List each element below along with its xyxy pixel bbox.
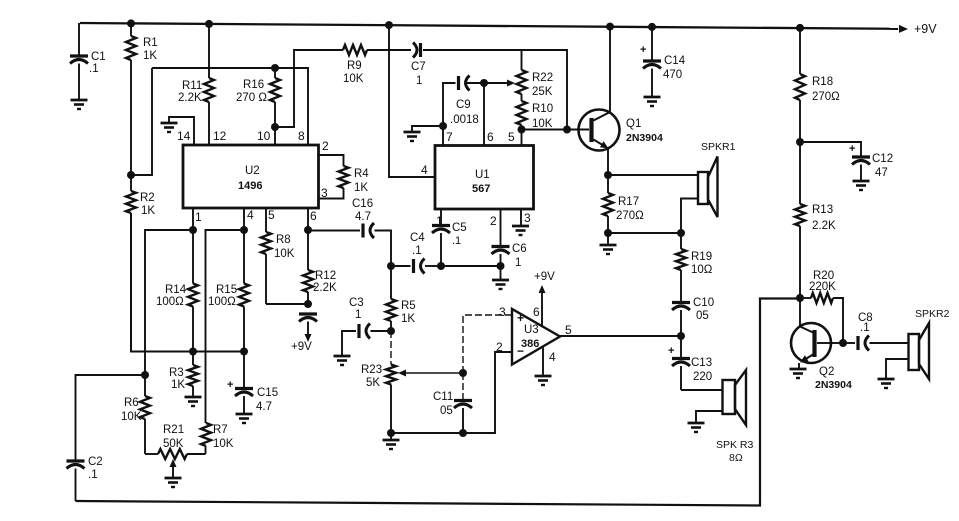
- capacitor C2: [67, 461, 85, 501]
- svg-text:Q2: Q2: [819, 366, 834, 378]
- svg-text:R19: R19: [691, 251, 712, 263]
- node rail-R1: [127, 19, 135, 27]
- capacitor C6: [492, 247, 510, 267]
- svg-text:10K: 10K: [343, 73, 364, 85]
- resistor R7: [201, 423, 211, 446]
- capacitor C14: [640, 27, 661, 97]
- svg-text:+: +: [849, 143, 855, 155]
- wire pin6 to C16: [308, 230, 360, 232]
- node C5 bottom: [437, 262, 445, 270]
- svg-text:C7: C7: [411, 61, 426, 73]
- label U2 top pins: [177, 129, 305, 143]
- wire pin4 to R7: [206, 230, 245, 423]
- wire U1 pin1 / C5: [440, 209, 442, 226]
- label R17 270: [616, 196, 644, 222]
- svg-text:SPKR2: SPKR2: [915, 308, 950, 320]
- svg-text:2: 2: [496, 340, 503, 354]
- wire C8 to SPKR2: [870, 342, 909, 344]
- svg-text:C14: C14: [664, 55, 686, 67]
- capacitor C11: [454, 373, 472, 433]
- wire C5node to C6 node: [441, 265, 501, 267]
- label C3 1: [349, 297, 364, 321]
- node row-R14: [189, 348, 197, 356]
- svg-text:R2: R2: [140, 192, 155, 204]
- svg-text:4: 4: [247, 208, 254, 222]
- label C8 .1: [858, 312, 873, 334]
- node pin5 junction: [518, 126, 526, 134]
- wire Q2 collector: [799, 298, 801, 327]
- svg-text:4.7: 4.7: [256, 401, 272, 413]
- ground (C3): [334, 356, 351, 365]
- ground (R23): [383, 433, 400, 449]
- wire R21 to R7: [205, 446, 207, 454]
- svg-text:.1: .1: [89, 63, 99, 75]
- node C9 right: [480, 79, 488, 87]
- label C2 .1: [88, 456, 103, 481]
- svg-text:R21: R21: [163, 424, 184, 436]
- wire C7 to Q1 base net: [423, 50, 567, 130]
- svg-text:10: 10: [257, 129, 271, 143]
- label SPKR2: [915, 308, 950, 320]
- resistor R9: [343, 45, 367, 55]
- label C1 .1: [89, 51, 106, 75]
- node R5 bottom: [387, 327, 395, 335]
- wire node to riser: [131, 68, 152, 175]
- svg-text:10K: 10K: [274, 248, 295, 260]
- wire C3 ground arm: [342, 331, 356, 356]
- wire R2 bottom row: [131, 213, 244, 352]
- wire SPKR1 bottom: [681, 199, 698, 234]
- wire U2 pin3 stub: [319, 188, 344, 199]
- wire node to C2: [76, 375, 146, 461]
- resistor R3: [188, 352, 198, 397]
- label U3 386: [521, 324, 539, 350]
- wire U3 pin6 +9V: [539, 285, 546, 326]
- label R11 2.2K: [178, 80, 202, 104]
- resistor R8: [261, 232, 271, 304]
- svg-text:.1: .1: [860, 322, 870, 334]
- svg-text:10Ω: 10Ω: [691, 264, 713, 276]
- wire U1 pin2 / C6: [500, 209, 502, 247]
- capacitor C5: [432, 226, 450, 267]
- wire C3 to R5 node: [371, 330, 392, 332]
- wire +9V top rail: [80, 23, 898, 29]
- label C9 .0018: [450, 99, 479, 126]
- svg-text:C16: C16: [352, 198, 373, 210]
- svg-text:.1: .1: [88, 469, 98, 481]
- ground (Q2): [790, 369, 807, 378]
- svg-text:C11: C11: [433, 391, 453, 403]
- resistor R1: [126, 23, 136, 175]
- svg-text:C3: C3: [349, 297, 364, 309]
- label C10 05: [693, 297, 714, 322]
- label R5 1K: [401, 300, 416, 325]
- svg-text:+9V: +9V: [291, 341, 312, 353]
- svg-text:C5: C5: [452, 222, 467, 234]
- wire R22 top tap: [521, 50, 523, 70]
- svg-text:567: 567: [472, 183, 490, 195]
- svg-text:C10: C10: [693, 297, 714, 309]
- svg-text:+9V: +9V: [534, 271, 555, 283]
- svg-text:R17: R17: [618, 196, 639, 208]
- label R14 100: [156, 284, 187, 308]
- wire R8 to R12 node: [266, 303, 308, 305]
- svg-text:100Ω: 100Ω: [208, 296, 236, 308]
- ground (C1): [71, 100, 88, 109]
- resistor R13: [795, 142, 805, 298]
- label C12 47: [872, 153, 893, 179]
- potentiometer R22: [517, 70, 527, 94]
- svg-text:R16: R16: [243, 79, 264, 91]
- label R13 2.2K: [812, 204, 836, 232]
- ground (U1 pin3): [512, 226, 529, 235]
- wire Q2 emitter: [798, 363, 800, 369]
- svg-text:+: +: [227, 379, 233, 391]
- wire pin7 ground arm: [412, 126, 443, 132]
- svg-text:1: 1: [416, 75, 422, 87]
- potentiometer R21: [145, 449, 206, 459]
- wire to SPKR1: [608, 174, 698, 176]
- svg-text:6: 6: [487, 130, 494, 144]
- wire Q1 collector: [609, 27, 611, 112]
- svg-text:+: +: [668, 345, 674, 357]
- svg-text:R15: R15: [216, 284, 237, 296]
- resistor R14: [188, 230, 198, 352]
- svg-text:1: 1: [515, 257, 521, 269]
- resistor R20: [800, 293, 843, 343]
- node wiper/C11: [459, 369, 467, 377]
- potentiometer R23: [386, 365, 396, 385]
- label R1 1K: [143, 37, 158, 62]
- resistor R5: [386, 266, 396, 331]
- wire C9 left to pin7: [443, 83, 456, 145]
- capacitor C8: [843, 336, 869, 351]
- label U1 bottom pins: [436, 211, 531, 228]
- svg-text:+: +: [640, 44, 646, 56]
- label R15 100: [208, 284, 237, 308]
- ground (C6): [492, 266, 509, 289]
- capacitor C16: [363, 223, 374, 238]
- node output/C13: [677, 332, 685, 340]
- resistor R11: [204, 24, 214, 145]
- label U1 567: [472, 169, 490, 195]
- wire U2 pin5 stub: [265, 208, 267, 232]
- svg-text:386: 386: [521, 338, 539, 350]
- svg-text:R5: R5: [401, 300, 416, 312]
- label C15 4.7: [256, 387, 278, 413]
- svg-text:C4: C4: [410, 232, 425, 244]
- label U1 pin4: [421, 163, 428, 177]
- svg-text:50K: 50K: [163, 438, 184, 450]
- ground (C12): [853, 181, 870, 190]
- label R8 10K: [274, 234, 295, 260]
- svg-text:C9: C9: [456, 99, 471, 111]
- svg-text:2.2K: 2.2K: [313, 282, 337, 294]
- label C4 .1: [410, 232, 425, 257]
- label R22 25K: [532, 72, 553, 98]
- op-amp U2 1496 box: [183, 145, 319, 208]
- resistor R2: [126, 175, 136, 352]
- svg-text:10K: 10K: [121, 411, 142, 423]
- label Q1 2N3904: [626, 118, 663, 144]
- label C11 05: [433, 391, 453, 417]
- resistor R17: [603, 175, 613, 233]
- wire C9 to pin6: [483, 83, 485, 145]
- node row-R15: [240, 348, 248, 356]
- svg-text:R1: R1: [143, 37, 158, 49]
- svg-text:5: 5: [268, 208, 275, 222]
- wire Q1 emitter: [607, 149, 609, 175]
- label Q2 2N3904: [815, 366, 852, 391]
- svg-text:.1: .1: [452, 235, 461, 247]
- svg-text:8: 8: [298, 129, 305, 143]
- svg-text:10K: 10K: [532, 118, 553, 130]
- svg-text:8Ω: 8Ω: [729, 452, 743, 464]
- svg-text:R13: R13: [812, 204, 833, 216]
- svg-text:C15: C15: [257, 387, 278, 399]
- label SPKR3 8ohm: [716, 439, 754, 464]
- svg-text:10K: 10K: [213, 438, 234, 450]
- svg-text:SPK R3: SPK R3: [716, 439, 754, 451]
- wire C16 to C4 node: [375, 231, 392, 267]
- svg-text:05: 05: [440, 405, 453, 417]
- op-amp U1 567 box: [435, 146, 534, 210]
- node R16 top: [271, 64, 279, 72]
- label R3 1K: [169, 367, 185, 391]
- svg-text:2N3904: 2N3904: [626, 132, 663, 144]
- svg-text:5: 5: [565, 323, 572, 337]
- node rail-pin4: [385, 21, 393, 29]
- wire rail to U1 pin4: [389, 25, 435, 177]
- svg-text:100Ω: 100Ω: [156, 296, 184, 308]
- resistor R18: [795, 28, 805, 142]
- label C6 1: [512, 243, 527, 269]
- wire Q2 base: [831, 342, 843, 344]
- label R10 10K: [532, 103, 553, 130]
- svg-text:1K: 1K: [141, 205, 155, 217]
- svg-text:R6: R6: [124, 397, 139, 409]
- ground (C14): [644, 97, 661, 106]
- node pin4 junction: [240, 226, 248, 234]
- op-amp U3 386: [512, 309, 560, 365]
- svg-text:5: 5: [508, 130, 515, 144]
- svg-text:3: 3: [499, 305, 506, 319]
- svg-text:R3: R3: [169, 367, 184, 379]
- transistor Q2 2N3904: [791, 323, 831, 363]
- svg-text:270 Ω: 270 Ω: [236, 92, 267, 104]
- capacitor C13: [668, 336, 690, 390]
- svg-text:R8: R8: [276, 234, 291, 246]
- svg-text:R9: R9: [347, 60, 362, 72]
- node pin1 junction: [189, 226, 197, 234]
- node R18/R13/C12: [796, 138, 804, 146]
- wire pin5 to Q1 base: [522, 129, 590, 131]
- svg-text:7: 7: [446, 130, 453, 144]
- label R6 10K: [121, 397, 142, 423]
- wire pin8 net: [152, 68, 308, 145]
- svg-text:R12: R12: [315, 270, 336, 282]
- node base net tee: [563, 126, 571, 134]
- svg-text:270Ω: 270Ω: [812, 91, 840, 103]
- capacitor C1: [70, 56, 88, 99]
- svg-text:2: 2: [322, 139, 329, 153]
- label C5: [452, 222, 467, 247]
- svg-text:270Ω: 270Ω: [616, 210, 644, 222]
- svg-text:C12: C12: [872, 153, 893, 165]
- svg-text:R14: R14: [165, 284, 187, 296]
- wire U2 pin1 stub: [192, 208, 194, 230]
- svg-text:220K: 220K: [809, 281, 836, 293]
- svg-text:12: 12: [213, 129, 227, 143]
- svg-text:6: 6: [533, 305, 540, 319]
- svg-text:SPKR1: SPKR1: [701, 141, 736, 153]
- svg-text:R18: R18: [812, 76, 833, 88]
- label U2 pin2/3: [321, 139, 329, 200]
- svg-text:R4: R4: [354, 168, 369, 180]
- svg-text:2N3904: 2N3904: [815, 379, 852, 391]
- node R1/R2 junction: [127, 171, 135, 179]
- svg-text:1K: 1K: [354, 182, 368, 194]
- svg-text:4: 4: [549, 350, 556, 364]
- label R20 220K: [809, 270, 836, 293]
- svg-text:220: 220: [693, 371, 712, 383]
- svg-text:U3: U3: [524, 324, 539, 336]
- node pin6 junction: [304, 226, 312, 234]
- svg-text:4.7: 4.7: [355, 211, 371, 223]
- wire pin1 to R6 column: [145, 230, 193, 375]
- label R9 10K: [343, 60, 364, 85]
- svg-text:R11: R11: [182, 80, 202, 92]
- label R16 270: [236, 79, 267, 104]
- wire U2 pin14 to ground: [169, 117, 194, 145]
- wire SPKR2 ground arm: [886, 359, 909, 379]
- node rail-R11: [205, 20, 213, 28]
- label U2 bottom pins: [195, 208, 317, 224]
- wire bottom rail: [76, 299, 801, 506]
- svg-text:1: 1: [355, 309, 361, 321]
- svg-text:+9V: +9V: [914, 22, 937, 36]
- resistor R12: [303, 230, 313, 304]
- svg-text:6: 6: [310, 209, 317, 223]
- svg-text:1K: 1K: [171, 379, 185, 391]
- resistor R6: [140, 375, 150, 454]
- resistor R15: [239, 230, 249, 352]
- svg-text:1K: 1K: [143, 50, 157, 62]
- label +9V (top right): [899, 22, 937, 36]
- svg-text:R22: R22: [532, 72, 553, 84]
- wire U2 pin4 stub: [243, 208, 245, 230]
- svg-text:3: 3: [524, 211, 531, 225]
- wire SPKR3 ground arm: [696, 411, 723, 423]
- svg-text:R10: R10: [532, 103, 553, 115]
- node Q1 emitter tee: [604, 171, 612, 179]
- node pin7/ground tee: [439, 122, 447, 130]
- svg-text:25K: 25K: [532, 86, 553, 98]
- svg-text:U2: U2: [245, 165, 260, 177]
- transistor Q1 2N3904: [579, 110, 620, 151]
- wire C9 to R22 wiper: [467, 80, 515, 87]
- resistor R4: [339, 166, 349, 188]
- node C6 bottom: [497, 262, 505, 270]
- svg-text:2: 2: [490, 214, 497, 228]
- svg-text:C2: C2: [88, 456, 103, 468]
- wire bottom row to pin2: [391, 352, 512, 433]
- svg-text:2.2K: 2.2K: [178, 92, 202, 104]
- wire R17 to R19: [608, 232, 681, 234]
- ground (R21): [165, 478, 182, 487]
- label SPKR1: [701, 141, 736, 153]
- ground (C15): [236, 414, 253, 423]
- ground (SPKR3): [688, 423, 705, 432]
- capacitor C3: [359, 324, 370, 339]
- wire pin10 stub: [274, 127, 276, 145]
- node R12 bottom: [304, 300, 312, 308]
- label +9V (down arrow): [291, 334, 312, 353]
- label U1 top pins: [446, 130, 515, 144]
- label C13 220: [691, 357, 712, 383]
- node R6 top: [141, 371, 149, 379]
- node R16 bottom / pin10: [271, 123, 279, 131]
- svg-text:47: 47: [875, 167, 888, 179]
- node R13/R20 junction: [796, 294, 804, 302]
- ground (R17): [600, 233, 617, 254]
- node R17 bottom: [604, 229, 612, 237]
- node R23 bottom row: [387, 429, 395, 437]
- label R19 10: [691, 251, 713, 276]
- resistor R19: [676, 233, 686, 303]
- label C14 470: [663, 55, 686, 81]
- svg-text:4: 4: [421, 163, 428, 177]
- svg-text:+: +: [517, 311, 524, 325]
- capacitor C7: [413, 43, 421, 58]
- svg-text:14: 14: [177, 129, 191, 143]
- svg-text:.0018: .0018: [450, 114, 479, 126]
- svg-text:1496: 1496: [238, 180, 262, 192]
- wire U1 pin3: [520, 209, 522, 226]
- node Q2 base/C8: [839, 339, 847, 347]
- ground (U3 pin4): [535, 376, 552, 385]
- wire U3 output: [560, 335, 681, 337]
- node C11 bottom: [459, 429, 467, 437]
- node rail-Q1: [606, 23, 614, 31]
- svg-text:2.2K: 2.2K: [812, 220, 836, 232]
- resistor R16: [270, 68, 280, 127]
- label R4 1K: [354, 168, 369, 194]
- pot wiper R23: [398, 370, 463, 377]
- label C7 1: [411, 61, 426, 87]
- label R2 1K: [140, 192, 155, 217]
- node R19 top: [677, 229, 685, 237]
- capacitor C10: [672, 303, 690, 337]
- capacitor C4: [391, 259, 425, 274]
- svg-text:C6: C6: [512, 243, 527, 255]
- svg-text:C1: C1: [91, 51, 106, 63]
- svg-text:1K: 1K: [401, 313, 415, 325]
- label U2 1496: [238, 165, 262, 192]
- label R7 10K: [213, 424, 234, 450]
- wire R9 to C7: [367, 49, 411, 51]
- pot wiper R21: [170, 459, 177, 478]
- capacitor C9: [459, 76, 470, 91]
- svg-text:1: 1: [195, 210, 202, 224]
- wire C13 to SPKR3: [681, 389, 723, 391]
- svg-text:Q1: Q1: [626, 118, 641, 130]
- label R21 50K: [163, 424, 184, 450]
- label R12 2.2K: [313, 270, 337, 294]
- wire R23 bottom: [390, 385, 392, 434]
- label C16 4.7: [352, 198, 373, 223]
- wire R5node to R23: [390, 331, 392, 365]
